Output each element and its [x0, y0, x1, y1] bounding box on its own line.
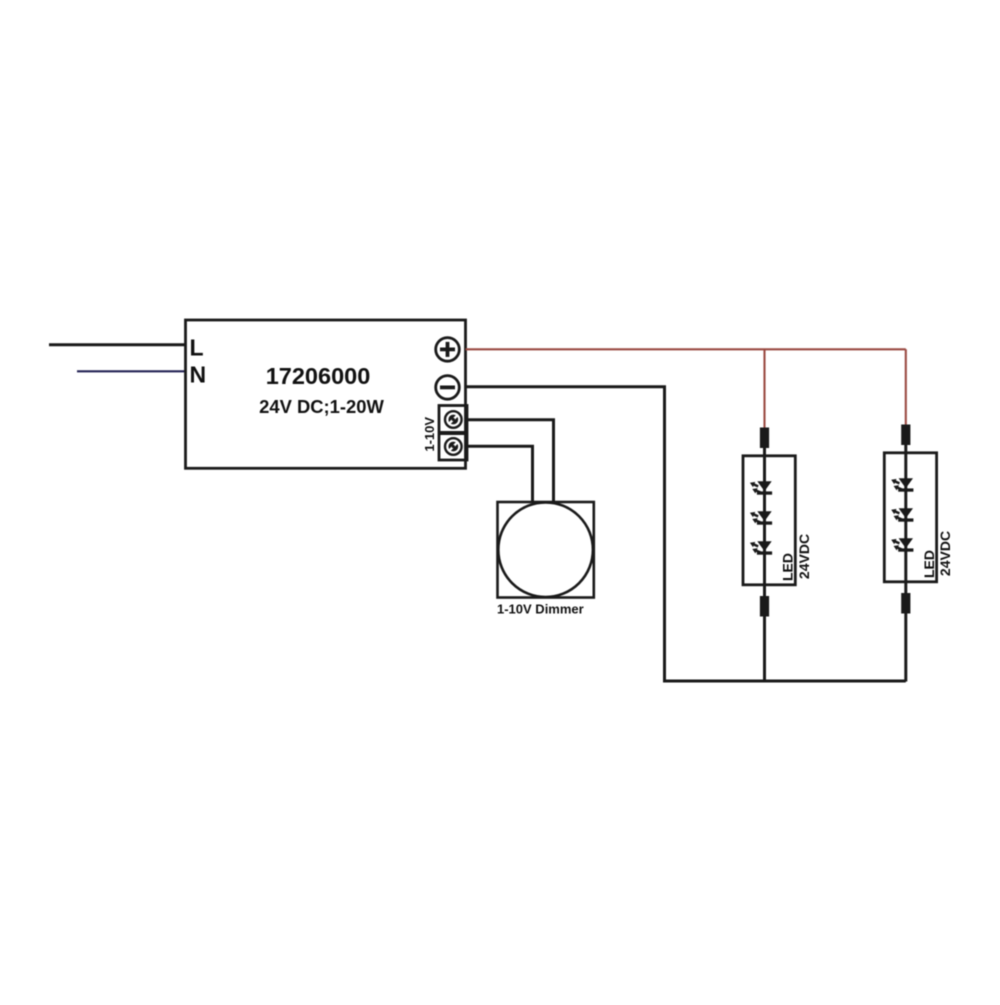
- wire 0V return (from - terminal, down and along bottom bus): [466, 387, 906, 681]
- LED D1b: [750, 511, 772, 525]
- LED D1c: [750, 541, 772, 555]
- svg-text:24VDC: 24VDC: [796, 534, 812, 579]
- svg-text:1-10V: 1-10V: [422, 417, 437, 452]
- terminal block 1-10V (two screw terminals): [439, 406, 467, 461]
- terminal + (plus output): [436, 338, 460, 362]
- wire +24V drop to LED1 (red): [763, 349, 765, 429]
- wire dim+ (upper screw to dimmer): [466, 420, 554, 503]
- LED D2b: [891, 508, 913, 522]
- connector bottom LED2 (thick bar): [901, 593, 910, 614]
- svg-text:1-10V Dimmer: 1-10V Dimmer: [497, 602, 584, 617]
- svg-text:LED: LED: [921, 550, 937, 578]
- LED D2a: [891, 478, 913, 491]
- svg-text:24VDC: 24VDC: [937, 531, 953, 576]
- svg-text:24V DC;1-20W: 24V DC;1-20W: [259, 396, 384, 417]
- wire LED1 string (vertical): [763, 447, 766, 682]
- svg-text:LED: LED: [780, 553, 796, 581]
- svg-text:N: N: [190, 362, 207, 388]
- LED strip D2 (box): [884, 453, 936, 582]
- svg-text:17206000: 17206000: [266, 363, 371, 389]
- LED D2c: [891, 538, 913, 552]
- wire +24V (red, from + terminal to LED strings): [466, 348, 906, 350]
- LED D1a: [750, 481, 772, 494]
- LED driver U1 (box 17206000): [186, 320, 466, 468]
- dimmer S1 (1-10V dimmer, square with knob circle): [498, 502, 594, 598]
- terminal - (minus output): [436, 376, 460, 400]
- wire +24V drop to LED2 (red): [905, 349, 907, 426]
- connector top LED2 (thick bar): [901, 425, 910, 446]
- wire LED2 string (vertical): [904, 444, 907, 682]
- wire dim- (lower screw to dimmer): [466, 446, 533, 502]
- connector top LED1 (thick bar): [760, 428, 769, 449]
- svg-text:L: L: [190, 335, 204, 361]
- LED strip D1 (box): [743, 456, 795, 585]
- wire N (mains neutral, blue): [77, 370, 186, 372]
- connector bottom LED1 (thick bar): [760, 596, 769, 617]
- wire L (mains live): [49, 343, 186, 346]
